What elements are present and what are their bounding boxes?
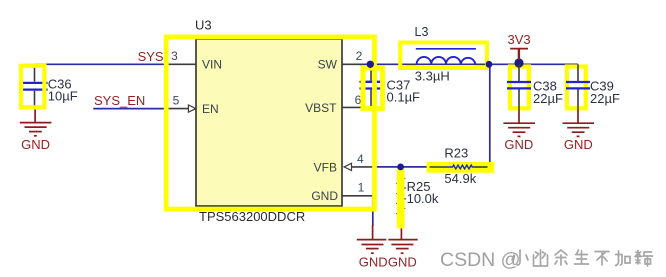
- svg-text:GND: GND: [504, 137, 533, 152]
- ground GND (U3 pin 1): [357, 240, 387, 254]
- wire vertical from output net down to R23 right end: [488, 64, 490, 167]
- power flag 3V3: [510, 49, 528, 60]
- highlight box around C37: [363, 68, 383, 108]
- svg-text:VIN: VIN: [202, 58, 222, 72]
- svg-text:3: 3: [171, 49, 178, 63]
- highlight bar over R23: [427, 162, 495, 173]
- wire red lead C38 to ground: [518, 109, 520, 124]
- pin 2 SW wire segment: [342, 63, 362, 65]
- svg-text:22µF: 22µF: [590, 91, 620, 106]
- char you: [534, 250, 548, 266]
- wire SYS_EN net (to EN pin): [93, 108, 166, 110]
- highlight box around chip: [166, 37, 374, 209]
- wire SW output net (SW pin to C39): [359, 63, 578, 65]
- svg-text:0.1µF: 0.1µF: [387, 89, 421, 104]
- highlight bar over R25: [397, 169, 405, 229]
- svg-text:EN: EN: [202, 102, 219, 116]
- svg-text:3V3: 3V3: [508, 32, 531, 47]
- svg-text:3.3µH: 3.3µH: [415, 69, 450, 84]
- svg-text:GND: GND: [388, 255, 417, 270]
- highlight box around C39: [567, 67, 586, 109]
- highlight box around C36: [21, 66, 44, 108]
- svg-text:22µF: 22µF: [533, 91, 563, 106]
- pin 4 VFB wire segment with input arrow: [352, 166, 373, 168]
- svg-text:54.9k: 54.9k: [444, 171, 476, 186]
- svg-text:SYS: SYS: [138, 49, 164, 64]
- wire VFB net (VFB pin to R25/R23): [372, 166, 430, 168]
- svg-text:SYS_EN: SYS_EN: [94, 93, 145, 108]
- svg-text:VBST: VBST: [305, 101, 337, 115]
- ground GND (C39): [563, 123, 595, 136]
- char tang: [635, 251, 653, 267]
- junction node at SW pin / C37 tap: [367, 61, 374, 68]
- svg-text:10µF: 10µF: [48, 88, 78, 103]
- capacitor C37 (bootstrap): [360, 64, 383, 107]
- wire red lead C39 to ground: [577, 109, 579, 124]
- resistor R23 (horizontal, drawn over highlight): [430, 165, 488, 169]
- resistor R25 (vertical): [397, 170, 404, 227]
- char sheng: [575, 250, 589, 264]
- svg-text:GND: GND: [21, 137, 50, 152]
- svg-text:2: 2: [356, 49, 363, 63]
- pin 3 VIN wire segment: [165, 63, 196, 65]
- svg-text:L3: L3: [415, 25, 429, 39]
- wire red lead R25 to ground: [400, 227, 402, 240]
- capacitor C36: [23, 64, 48, 108]
- svg-text:GND: GND: [311, 189, 338, 203]
- svg-text:5: 5: [173, 94, 180, 108]
- highlight box around L3: [400, 43, 487, 69]
- svg-text:10.0k: 10.0k: [407, 191, 439, 206]
- wire SYS net (C36 top to VIN pin): [35, 63, 166, 65]
- wire red lead C36 to ground: [34, 109, 36, 123]
- svg-text:4: 4: [357, 152, 364, 166]
- char yu: [555, 250, 567, 265]
- ground GND (C38): [503, 123, 535, 136]
- char bu: [595, 252, 609, 266]
- junction node at VFB / R25 tap: [397, 164, 404, 171]
- wire GND pin1 vertical: [372, 197, 374, 226]
- inductor L3: [406, 49, 486, 65]
- op-amp U3 chip body TPS563200DDCR: [196, 39, 342, 206]
- capacitor C39: [566, 64, 590, 108]
- watermark chinese characters: [512, 250, 653, 266]
- capacitor C38: [507, 64, 531, 108]
- svg-text:GND: GND: [564, 137, 593, 152]
- pin 1 GND wire segment: [342, 196, 373, 209]
- highlight box around C38: [510, 67, 529, 109]
- svg-text:VFB: VFB: [314, 160, 337, 174]
- ground GND (C36): [20, 123, 52, 136]
- junction node at L3 output / R23 feedback tap: [486, 61, 493, 68]
- svg-text:CSDN @: CSDN @: [440, 249, 520, 271]
- svg-text:U3: U3: [195, 18, 212, 33]
- pin 6 VBST wire segment: [342, 106, 371, 108]
- svg-text:SW: SW: [318, 58, 338, 72]
- char xiao: [512, 250, 528, 265]
- char jia: [616, 251, 631, 266]
- junction node at 3V3 / C38 tap: [514, 58, 523, 67]
- svg-text:GND: GND: [359, 255, 388, 270]
- pin 5 EN wire segment with input arrow: [166, 108, 189, 110]
- svg-text:1: 1: [358, 181, 365, 195]
- wire red lead pin1 to ground: [372, 225, 374, 240]
- ground GND (R25): [388, 240, 417, 254]
- svg-text:R23: R23: [444, 146, 468, 161]
